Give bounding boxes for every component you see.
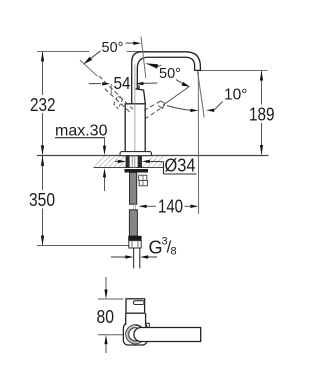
svg-text:10°: 10°	[224, 86, 247, 103]
top 50deg left leader and arrow	[91, 51, 101, 59]
faucet centerline	[134, 65, 136, 152]
top view lever rectangle	[126, 299, 145, 313]
svg-text:50°: 50°	[159, 66, 181, 82]
top view extension line lower (spout axis)	[98, 334, 123, 336]
top 50deg tilted extension line (lever axis)	[141, 37, 146, 79]
dimension 54 right arrow	[135, 82, 143, 85]
connection tube G3/8	[133, 248, 135, 268]
spout outer contour	[132, 52, 201, 104]
faucet body	[125, 104, 145, 152]
10 deg right arrow and leader to text	[206, 109, 214, 112]
max.30 lower arrow pointing up at deck bottom	[103, 168, 106, 178]
threaded shank in deck hole	[126, 156, 130, 168]
base plate escutcheon	[120, 152, 152, 156]
top view riser ring	[126, 325, 145, 344]
top view body sides	[126, 313, 146, 325]
flexible hose lower braided section	[129, 210, 137, 236]
Ø34 arrows	[115, 160, 118, 162]
mounting washer (dark bar)	[125, 169, 149, 173]
solid extension of dashed lever axis	[80, 60, 97, 76]
svg-text:max.30: max.30	[55, 123, 108, 140]
top view spout nub	[146, 323, 150, 327]
spout outlet vertical extension line	[197, 72, 199, 215]
hose gap connector lines	[132, 204, 134, 210]
dashed lever swung left	[99, 76, 133, 113]
dimension 80	[105, 277, 107, 291]
extension line top (232 upper datum)	[37, 51, 90, 53]
mounting nut	[139, 175, 147, 180]
G3/8 arrows	[111, 256, 127, 258]
top view extension line upper	[98, 298, 123, 300]
dimension 54 left arrow	[89, 83, 101, 85]
dimension 350 line	[42, 156, 44, 190]
svg-text:Ø34: Ø34	[165, 156, 196, 176]
top view spout band	[134, 328, 201, 342]
deck hatching right	[143, 156, 164, 167]
deck cross-section bottom line	[94, 167, 164, 169]
inner 50deg upper-left arrow	[145, 63, 158, 68]
flexible hose upper braided section	[130, 173, 137, 205]
dimension 232 line	[42, 52, 44, 95]
top view lever slot	[133, 301, 144, 305]
Ø34 label frame	[163, 162, 165, 174]
svg-text:232: 232	[30, 94, 56, 115]
svg-text:140: 140	[158, 196, 183, 217]
svg-text:80: 80	[97, 306, 115, 327]
hose end fitting dark band	[128, 236, 141, 241]
svg-text:G: G	[149, 238, 163, 258]
top 50deg right arrow	[126, 42, 135, 44]
inner 50deg lower-right arrow	[176, 80, 183, 84]
dimension 189	[201, 70, 268, 72]
svg-text:54: 54	[114, 73, 131, 93]
svg-text:50°: 50°	[102, 40, 124, 56]
max.30 leader arrow to deck	[104, 139, 106, 147]
lever blade at rest	[136, 85, 146, 104]
hose end fitting body	[129, 241, 141, 248]
10 deg left arrow with curved leader	[167, 106, 191, 111]
10 deg tilted extension line	[198, 71, 205, 118]
top view base flange rounded square	[123, 323, 147, 345]
54 extension line at lever tip	[110, 84, 112, 96]
svg-text:350: 350	[29, 189, 55, 210]
deck / counter surface line	[37, 155, 269, 157]
dashed lever swung right	[144, 101, 165, 119]
dimension 140	[139, 205, 147, 208]
svg-text:189: 189	[249, 104, 275, 125]
deck hatching left	[94, 156, 130, 167]
extension line bottom (350 lower datum)	[37, 245, 130, 247]
ray R: lever swung-right axis extension	[163, 86, 190, 105]
svg-text:8: 8	[171, 246, 177, 258]
